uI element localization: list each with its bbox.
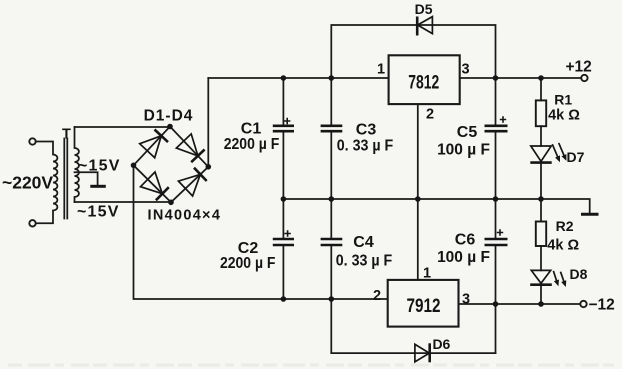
svg-text:4k Ω: 4k Ω	[547, 238, 579, 254]
svg-text:T: T	[62, 127, 71, 143]
svg-text:~15V: ~15V	[78, 158, 121, 175]
svg-text:1: 1	[377, 62, 385, 78]
svg-text:3: 3	[461, 62, 469, 78]
svg-text:C3: C3	[356, 122, 377, 139]
svg-text:100 µ F: 100 µ F	[437, 249, 490, 266]
svg-text:D7: D7	[567, 149, 585, 165]
svg-text:R2: R2	[556, 218, 574, 234]
svg-text:2200 µ F: 2200 µ F	[224, 136, 280, 153]
svg-text:2200 µ F: 2200 µ F	[220, 255, 276, 272]
svg-text:7812: 7812	[408, 73, 439, 94]
svg-text:4k Ω: 4k Ω	[548, 108, 580, 124]
svg-text:0. 33 µ F: 0. 33 µ F	[337, 138, 394, 155]
svg-text:+12: +12	[565, 59, 591, 76]
svg-text:~15V: ~15V	[77, 204, 120, 221]
svg-text:C6: C6	[455, 232, 476, 249]
svg-text:7912: 7912	[407, 296, 441, 317]
svg-text:IN4004×4: IN4004×4	[148, 208, 222, 224]
svg-text:C5: C5	[457, 124, 478, 141]
svg-text:2: 2	[373, 288, 381, 304]
svg-text:3: 3	[462, 292, 470, 308]
svg-text:100 µ F: 100 µ F	[437, 142, 490, 159]
svg-text:D8: D8	[570, 266, 588, 282]
svg-text:1: 1	[423, 266, 431, 282]
svg-text:2: 2	[426, 107, 434, 123]
svg-text:D1-D4: D1-D4	[144, 108, 194, 125]
svg-text:C1: C1	[241, 120, 262, 137]
svg-text:C4: C4	[353, 234, 374, 251]
svg-text:−12: −12	[589, 297, 615, 314]
svg-text:D6: D6	[432, 336, 450, 352]
svg-text:D5: D5	[415, 1, 433, 17]
svg-text:R1: R1	[554, 91, 572, 107]
svg-text:0. 33 µ F: 0. 33 µ F	[336, 253, 393, 270]
svg-text:~220V: ~220V	[2, 173, 53, 193]
